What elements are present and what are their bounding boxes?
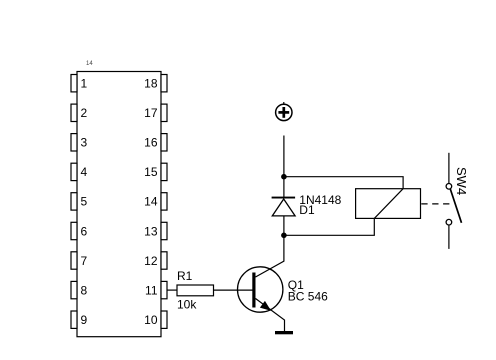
svg-text:8: 8 [81,283,88,297]
pin 8 [71,281,88,298]
resistor R1 [177,285,214,296]
wire power to node A [283,136,285,177]
diode D1 triangle [272,199,295,216]
pin 3 [71,134,88,151]
svg-text:11: 11 [145,283,158,297]
switch SW4 top lead wire [448,153,450,184]
Q1 emitter arrow [261,302,270,310]
svg-text:3: 3 [81,136,88,150]
pin 15 [144,163,167,180]
pin 6 [71,222,88,239]
svg-text:17: 17 [144,106,158,120]
wire diode D1 to node B [283,216,285,235]
pin 16 [144,134,167,151]
svg-text:16: 16 [144,136,158,150]
node B junction dot [281,233,287,239]
svg-text:D1: D1 [299,203,315,217]
ground [275,331,293,334]
pin 12 [144,252,167,269]
svg-text:9: 9 [81,313,88,327]
pin 4 [71,163,88,180]
switch SW4 blade [450,189,461,223]
svg-text:SW4: SW4 [454,167,469,195]
pin 18 [144,75,167,92]
Q1 collector wire [256,236,284,277]
pin 5 [71,193,88,210]
svg-text:2: 2 [81,106,88,120]
node A junction dot [281,174,287,180]
pin 13 [144,222,167,239]
svg-text:10k: 10k [177,298,197,312]
pin 1 [71,75,88,92]
svg-text:R1: R1 [177,269,193,283]
svg-text:18: 18 [144,77,158,91]
svg-text:14: 14 [86,61,93,67]
wire node A to diode D1 [283,177,285,198]
svg-text:13: 13 [144,224,158,238]
svg-text:12: 12 [144,254,158,268]
diode D1 cathode bar [272,197,296,199]
wire pin 11 to R1 [167,289,177,291]
relay K1 coil box [356,189,421,219]
IC U1 body [77,72,161,337]
svg-text:1: 1 [81,77,88,91]
pin 9 [71,311,88,328]
pin 11 [145,281,167,298]
relay K1 diagonal [374,189,403,219]
svg-text:6: 6 [81,224,88,238]
svg-text:7: 7 [81,254,88,268]
power +V symbol [276,102,292,121]
dashed actuation link [421,203,451,205]
svg-text:4: 4 [81,165,88,179]
pin 10 [144,311,167,328]
pin 14 [144,193,167,210]
Q1 base bar [252,273,255,308]
switch SW4 bottom terminal [446,219,452,225]
wire relay K1 to node B [284,218,374,235]
wire node A to relay K1 [284,177,403,189]
pin 2 [71,104,88,121]
switch SW4 bottom lead wire [448,225,450,249]
svg-text:5: 5 [81,195,88,209]
svg-text:BC 546: BC 546 [288,290,328,304]
Q1 emitter wire [256,299,285,332]
pin 17 [144,104,167,121]
svg-text:10: 10 [144,313,158,327]
svg-text:14: 14 [144,195,158,209]
wire R1 to Q1 base [214,289,254,291]
pin 7 [71,252,88,269]
switch SW4 top terminal [446,184,452,190]
svg-text:15: 15 [144,165,158,179]
transistor Q1 circle [238,267,283,312]
